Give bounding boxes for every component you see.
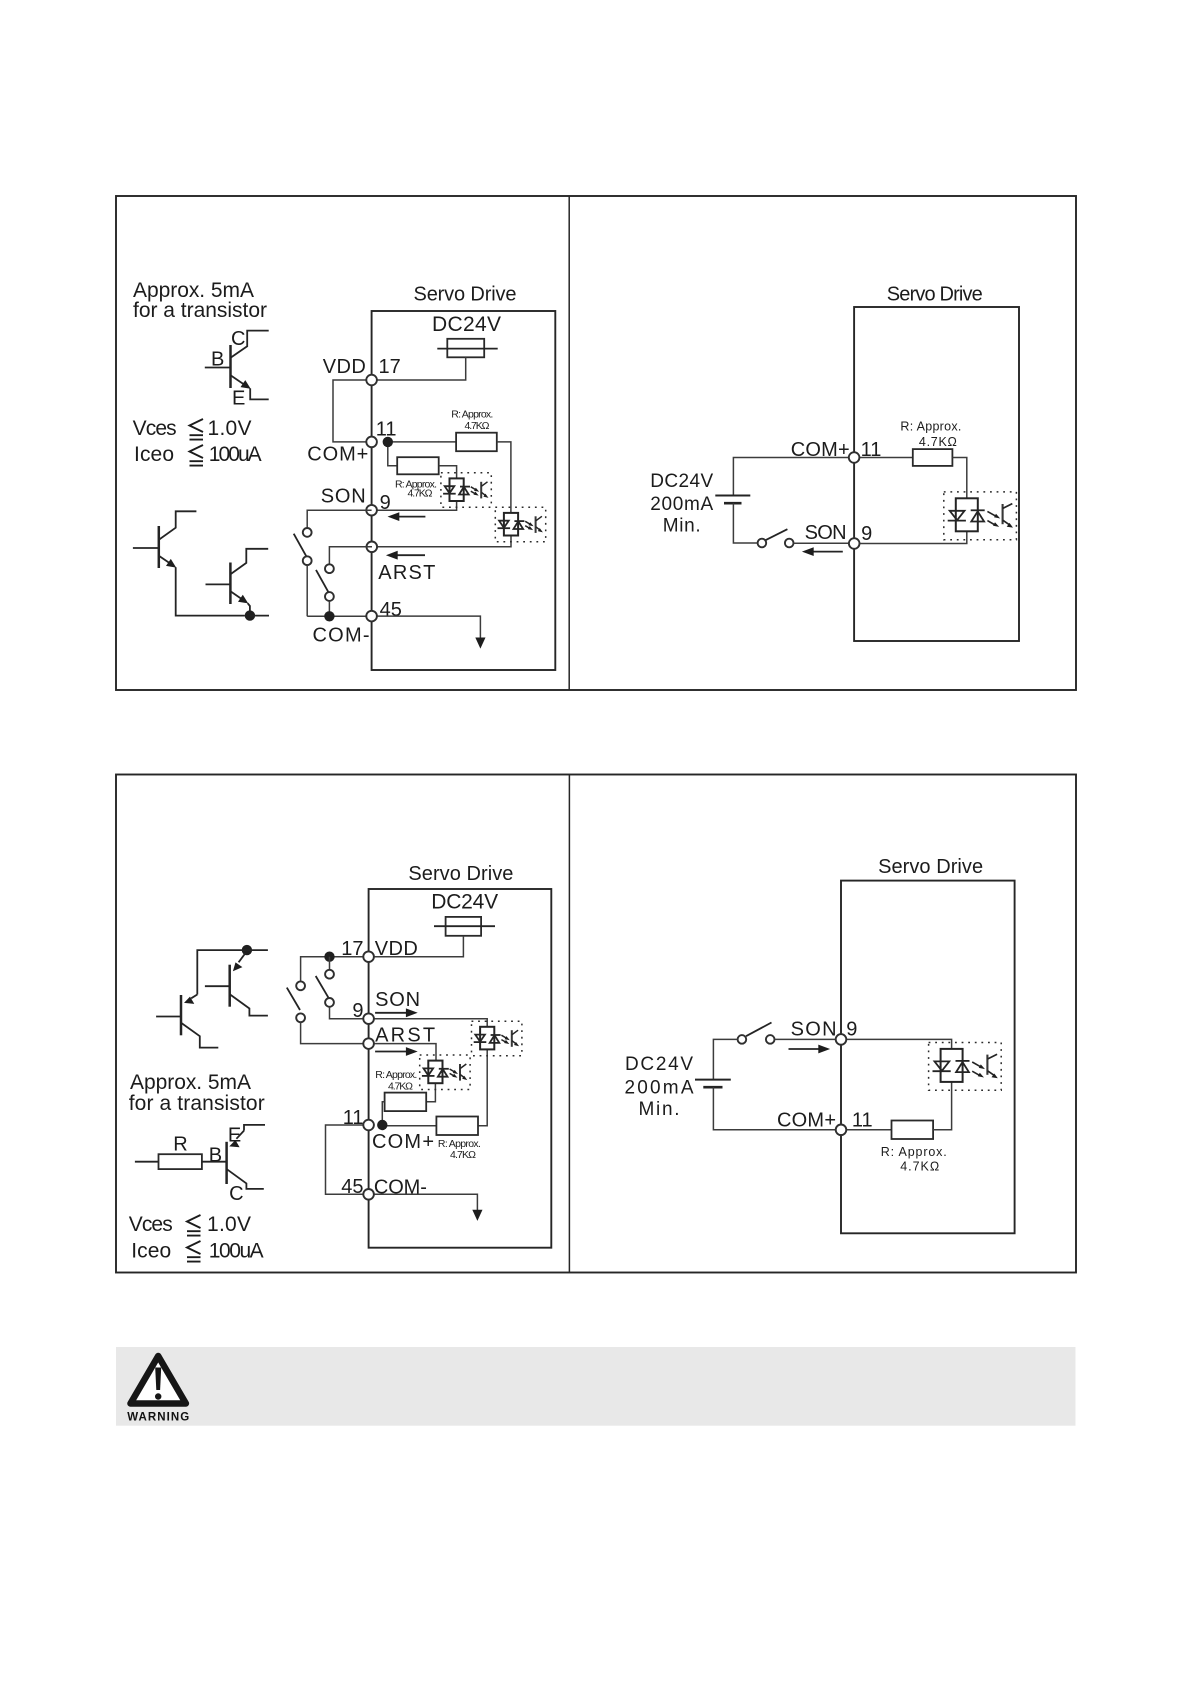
- svg-text:COM-: COM-: [374, 1177, 427, 1199]
- svg-text:C: C: [231, 328, 245, 350]
- junction dot on VDD wire: [324, 952, 334, 962]
- wire battery to switch right panel 2: [713, 1039, 737, 1079]
- switch left contact: [758, 539, 767, 548]
- transistor example base lead: [205, 367, 231, 369]
- svg-text:Min.: Min.: [639, 1099, 680, 1120]
- wire COM+ junction down to R2: [388, 442, 397, 466]
- svg-text:4.7KΩ: 4.7KΩ: [919, 435, 957, 449]
- COM+ pin 11: [366, 437, 377, 448]
- svg-text:4.7KΩ: 4.7KΩ: [388, 1080, 413, 1092]
- sketch transistor Q2 bar: [229, 563, 232, 605]
- sketch Q2 emitter lead: [231, 592, 250, 616]
- junction dot at COM+: [383, 437, 393, 447]
- optocoupler PC1: [441, 473, 491, 508]
- ground arrowhead: [475, 638, 485, 649]
- COM- bus wire: [307, 615, 366, 617]
- panel border box 2: [116, 775, 1076, 1273]
- resistor RB: [436, 1117, 478, 1136]
- svg-text:E: E: [232, 388, 245, 410]
- svg-text:Servo Drive: Servo Drive: [408, 863, 513, 885]
- resistor right panel 1: [913, 449, 953, 466]
- svg-text:Vces: Vces: [129, 1213, 173, 1236]
- sketch PNP Q4 bar: [228, 965, 231, 1007]
- optocoupler PC2: [495, 507, 545, 541]
- battery short plate right panel 2: [703, 1086, 722, 1089]
- switch S4 top contact: [325, 970, 334, 979]
- ARST pin: [367, 542, 378, 553]
- PNP example emitter arrow: [229, 1140, 239, 1147]
- sketch Q1 base lead: [133, 547, 159, 549]
- battery long plate right panel 2: [695, 1079, 731, 1081]
- sketch PNP Q3 bar: [180, 995, 183, 1035]
- switch right contact: [785, 539, 794, 548]
- leq symbol 4: [187, 1241, 201, 1262]
- svg-text:45: 45: [341, 1176, 363, 1198]
- battery long plate: [715, 495, 750, 497]
- sketch Q3 collector lead: [181, 1023, 218, 1048]
- svg-text:B: B: [211, 349, 224, 371]
- transistor example emitter arrow: [241, 380, 251, 389]
- wire 45 to ground arrow panel 2: [374, 1194, 477, 1211]
- COM+ pin right panel: [849, 452, 860, 463]
- switch S2 lever: [316, 570, 329, 593]
- svg-text:COM-: COM-: [313, 625, 370, 647]
- svg-text:R: Approx.: R: Approx.: [900, 419, 961, 433]
- svg-text:11: 11: [852, 1110, 873, 1132]
- svg-text:SON: SON: [805, 522, 847, 544]
- svg-text:4.7KΩ: 4.7KΩ: [465, 420, 490, 432]
- svg-text:4.7KΩ: 4.7KΩ: [450, 1149, 476, 1161]
- svg-text:Servo Drive: Servo Drive: [887, 283, 983, 305]
- resistor R2: [397, 457, 439, 474]
- svg-text:9: 9: [380, 492, 391, 514]
- svg-text:Vces: Vces: [133, 417, 177, 440]
- sketch Q1 collector lead: [159, 511, 196, 539]
- svg-text:R: Approx.: R: Approx.: [375, 1069, 417, 1081]
- svg-text:100uA: 100uA: [209, 1240, 264, 1263]
- svg-text:17: 17: [379, 356, 401, 378]
- DC24V source symbol: [447, 339, 484, 358]
- sketch Q1 emitter arrow: [166, 559, 176, 568]
- SON pin 9: [366, 505, 377, 516]
- svg-text:COM+: COM+: [372, 1131, 434, 1153]
- SON pin right panel 2: [836, 1034, 847, 1045]
- sketch PNP Q3 emitter lead: [191, 995, 197, 999]
- VDD pin 17 panel 2: [363, 951, 374, 962]
- svg-text:9: 9: [846, 1019, 857, 1041]
- servo drive box right panel 1: [854, 307, 1019, 641]
- svg-text:for a transistor: for a transistor: [129, 1092, 265, 1115]
- junction dot on COM- bus: [324, 611, 334, 621]
- sketch dot lead left and down: [197, 950, 247, 994]
- switch S1 upper wire: [307, 510, 371, 528]
- svg-text:SON: SON: [375, 989, 420, 1011]
- COM+ pin right panel 2: [836, 1125, 847, 1136]
- panel border box 1: [116, 196, 1076, 690]
- sketch Q2 collector lead: [231, 549, 268, 574]
- external wire VDD to switch S3: [301, 957, 369, 982]
- svg-text:VDD: VDD: [323, 356, 366, 378]
- wire PC2 to ARST pin: [372, 536, 511, 547]
- 45 pin: [366, 611, 377, 622]
- svg-text:DC24V: DC24V: [432, 313, 501, 336]
- wire RA to COM+ junction: [382, 1102, 384, 1125]
- switch S1 bottom contact: [303, 556, 312, 565]
- wire 45 to ground arrow: [377, 616, 480, 639]
- svg-text:R: R: [173, 1133, 187, 1155]
- wire PC3 down to resistor RB: [478, 1049, 487, 1126]
- svg-text:WARNING: WARNING: [127, 1412, 189, 1424]
- resistor RA: [385, 1093, 427, 1112]
- SON pin 9 panel 2: [363, 1013, 374, 1024]
- servo drive box left panel 2: [369, 889, 552, 1248]
- resistor R1: [456, 433, 497, 452]
- svg-text:4.7KΩ: 4.7KΩ: [408, 488, 433, 500]
- SON direction arrow panel 2: [375, 1012, 407, 1014]
- wire PC4 down to resistor RA: [426, 1083, 435, 1101]
- PNP example emitter lead: [236, 1125, 265, 1139]
- optocoupler right panel 2: [929, 1043, 1002, 1091]
- wire PC1 to SON pin: [372, 501, 457, 510]
- switch left contact right panel 2: [738, 1035, 747, 1044]
- switch S3 lower wire to ARST: [301, 1022, 364, 1043]
- optocoupler PC3: [472, 1021, 522, 1056]
- sketch transistor Q1 bar: [158, 526, 161, 568]
- wire R1 to optocoupler PC2: [497, 442, 511, 513]
- svg-text:Approx. 5mA: Approx. 5mA: [130, 1071, 251, 1094]
- wire junction to resistor RB: [382, 1125, 436, 1127]
- svg-text:COM+: COM+: [307, 444, 368, 466]
- warning exclamation mark: [155, 1368, 161, 1391]
- wire resistor to optocoupler: [952, 458, 966, 499]
- switch S2 bottom contact: [325, 592, 334, 601]
- switch S1 lever: [294, 534, 307, 557]
- sketch Q3 base lead: [156, 1016, 181, 1018]
- leq symbol 1: [190, 419, 204, 440]
- switch right contact right panel 2: [766, 1035, 775, 1044]
- ARST pin panel 2: [363, 1038, 374, 1049]
- switch S3 lever: [287, 988, 300, 1010]
- sketch Q4 base lead: [205, 985, 230, 987]
- warning triangle: [131, 1356, 186, 1404]
- sketch Q1 emitter lead: [159, 556, 245, 616]
- svg-text:200mA: 200mA: [625, 1078, 694, 1099]
- switch lever right panel 1: [766, 529, 788, 540]
- resistor right panel 2: [892, 1121, 934, 1140]
- sketch emitter junction dot: [245, 610, 255, 620]
- sketch PNP pair junction dot: [242, 945, 252, 955]
- wire resistor to optocoupler right panel 2: [933, 1082, 952, 1130]
- switch S2 top contact: [325, 564, 334, 573]
- svg-text:DC24V: DC24V: [431, 891, 498, 914]
- sketch Q2 base lead: [206, 583, 231, 585]
- svg-text:1.0V: 1.0V: [207, 1213, 251, 1236]
- COM+ pin 11 panel 2: [363, 1120, 374, 1131]
- servo drive box right panel 2: [841, 881, 1015, 1234]
- wire ARST pin to optocoupler PC4: [369, 1044, 436, 1061]
- PNP example collector lead: [227, 1169, 264, 1189]
- 45 pin panel 2: [363, 1189, 374, 1200]
- sketch Q3 emitter arrow: [184, 997, 194, 1004]
- svg-text:SON: SON: [321, 486, 366, 508]
- optocoupler PC4: [420, 1055, 470, 1090]
- ground arrowhead panel 2: [472, 1210, 482, 1221]
- wire switch to SON pin right panel 2: [775, 1038, 837, 1040]
- svg-text:45: 45: [380, 599, 402, 621]
- SON direction arrow right panel 2: [789, 1048, 820, 1050]
- wire R2 to optocoupler PC1: [439, 466, 457, 479]
- svg-text:R: Approx.: R: Approx.: [451, 409, 493, 421]
- switch S4 lever: [316, 976, 329, 998]
- wire DC24V to VDD pin panel 2: [369, 936, 464, 957]
- battery short plate: [724, 502, 742, 505]
- svg-text:C: C: [229, 1183, 243, 1205]
- base resistor lead right: [202, 1161, 227, 1163]
- optocoupler right panel 1: [944, 492, 1017, 540]
- switch S2 upper wire: [329, 547, 372, 565]
- transistor example emitter lead: [231, 376, 269, 400]
- SON pin right panel: [849, 538, 860, 549]
- switch S2 lower wire: [328, 601, 330, 616]
- PNP example bar: [225, 1142, 228, 1184]
- svg-text:Min.: Min.: [663, 516, 701, 537]
- SON direction arrow right panel: [812, 551, 843, 553]
- panel divider box 2: [568, 775, 570, 1273]
- svg-text:COM+: COM+: [777, 1110, 836, 1132]
- DC24V source symbol panel 2: [446, 917, 482, 936]
- switch S3 top contact: [296, 981, 305, 990]
- svg-text:4.7KΩ: 4.7KΩ: [900, 1160, 939, 1174]
- svg-text:200mA: 200mA: [650, 494, 713, 515]
- transistor example collector lead: [231, 331, 269, 358]
- wire COM+ pin to resistor right panel 2: [846, 1129, 891, 1131]
- svg-text:VDD: VDD: [375, 938, 418, 960]
- svg-text:Iceo: Iceo: [131, 1240, 171, 1263]
- wire COM+ pin to resistor: [859, 457, 912, 459]
- wire optocoupler to SON pin: [859, 531, 966, 543]
- sketch Q4 collector lead: [230, 995, 268, 1016]
- svg-text:for a transistor: for a transistor: [133, 299, 267, 322]
- svg-text:SON: SON: [791, 1019, 837, 1041]
- sketch dot lead right: [247, 949, 268, 951]
- base resistor R: [159, 1154, 202, 1169]
- switch S1 top contact: [303, 528, 312, 537]
- stub dot to switch S4: [329, 957, 331, 970]
- switch S4 bottom contact: [325, 998, 334, 1007]
- external wire 11 to 45: [326, 1125, 369, 1194]
- svg-text:11: 11: [343, 1107, 364, 1129]
- SON direction arrow: [398, 516, 425, 518]
- svg-text:Iceo: Iceo: [134, 443, 174, 466]
- wire COM+ to battery: [733, 458, 849, 496]
- ARST direction arrow panel 2: [375, 1051, 407, 1053]
- base resistor lead left: [135, 1161, 159, 1163]
- sketch dot lead right: [250, 615, 269, 617]
- VDD pin 17: [366, 375, 377, 386]
- switch S3 bottom contact: [296, 1013, 305, 1022]
- svg-text:9: 9: [352, 1000, 363, 1022]
- svg-text:9: 9: [861, 523, 872, 545]
- servo drive box left panel 1: [372, 311, 556, 670]
- wire SON pin to optocoupler PC3: [369, 1019, 488, 1027]
- svg-text:Servo Drive: Servo Drive: [878, 856, 983, 878]
- svg-text:1.0V: 1.0V: [208, 417, 252, 440]
- wire SON pin to optocoupler right panel 2: [841, 1039, 952, 1048]
- svg-text:DC24V: DC24V: [625, 1054, 693, 1075]
- svg-text:Servo Drive: Servo Drive: [414, 283, 517, 305]
- svg-text:R: Approx.: R: Approx.: [881, 1145, 947, 1159]
- leq symbol 3: [187, 1215, 201, 1236]
- sketch Q2 emitter arrow: [238, 595, 248, 604]
- panel divider box 1: [568, 196, 570, 690]
- svg-text:B: B: [209, 1145, 222, 1167]
- ARST direction arrow: [396, 554, 425, 556]
- junction dot at COM+ panel 2: [377, 1120, 387, 1130]
- switch S4 lower wire to SON: [330, 1007, 364, 1019]
- wire DC24V to VDD pin: [372, 357, 466, 380]
- svg-text:ARST: ARST: [378, 562, 435, 584]
- wire COM+ junction to R1: [388, 441, 456, 443]
- svg-text:DC24V: DC24V: [650, 471, 713, 492]
- sketch Q4 emitter arrow: [233, 962, 243, 971]
- svg-text:100uA: 100uA: [209, 443, 262, 466]
- warning panel background: [116, 1347, 1076, 1426]
- wire switch to SON pin: [794, 542, 850, 544]
- wire battery to switch: [733, 503, 757, 543]
- transistor example NPN bar: [229, 345, 232, 388]
- external wire VDD to COM+: [333, 380, 372, 442]
- sketch PNP Q4 emitter lead: [239, 953, 246, 962]
- switch S1 lower wire: [306, 565, 308, 616]
- wire battery to COM+ right panel 2: [713, 1087, 836, 1130]
- leq symbol 2: [190, 445, 204, 466]
- switch lever right panel 2: [746, 1023, 772, 1037]
